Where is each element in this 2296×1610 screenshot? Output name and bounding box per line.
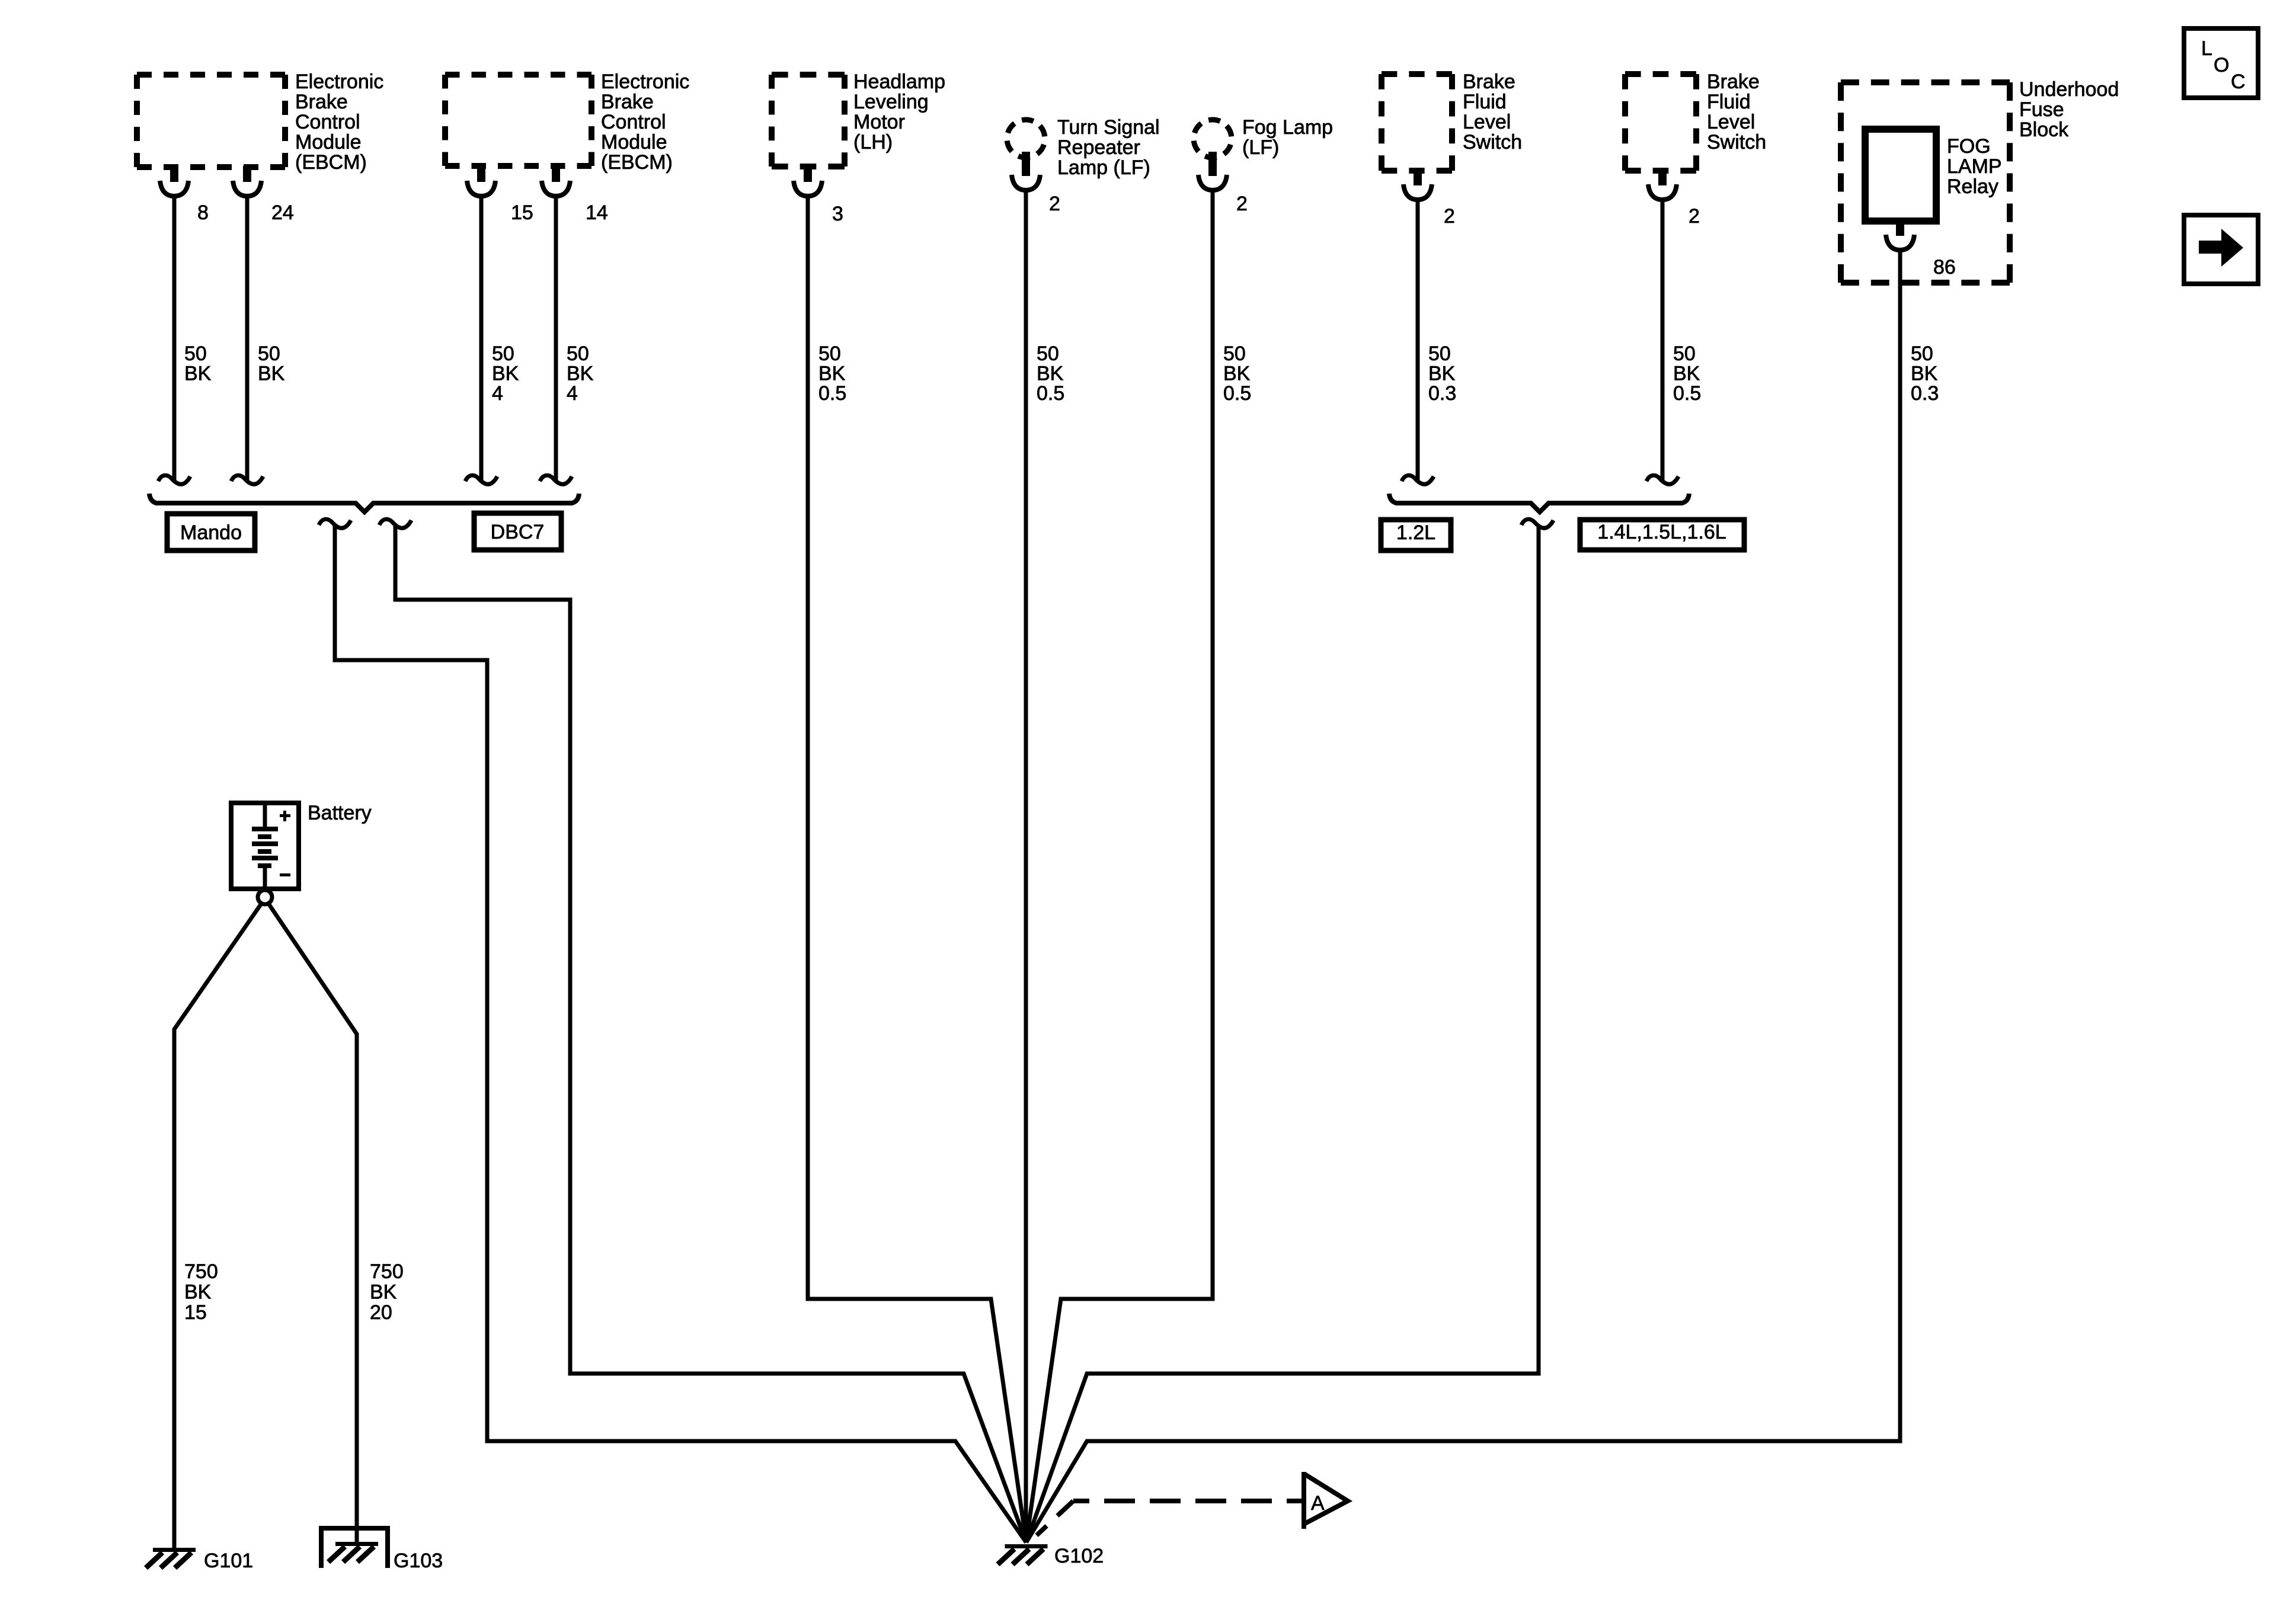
svg-text:Electronic: Electronic: [601, 71, 689, 93]
svg-text:BK: BK: [567, 363, 594, 385]
svg-text:G103: G103: [394, 1550, 443, 1572]
svg-text:Brake: Brake: [1707, 71, 1760, 93]
svg-text:Turn Signal: Turn Signal: [1057, 116, 1160, 139]
svg-text:LAMP: LAMP: [1947, 155, 2002, 178]
svg-text:50: 50: [1911, 343, 1933, 365]
svg-text:50: 50: [258, 343, 280, 365]
svg-text:Leveling: Leveling: [853, 91, 929, 113]
svg-text:Fluid: Fluid: [1707, 91, 1751, 113]
svg-text:2: 2: [1444, 205, 1455, 228]
svg-text:Brake: Brake: [1463, 71, 1515, 93]
svg-text:Lamp (LF): Lamp (LF): [1057, 156, 1150, 179]
svg-text:G101: G101: [204, 1550, 253, 1572]
svg-text:15: 15: [511, 201, 533, 224]
svg-text:1.4L,1.5L,1.6L: 1.4L,1.5L,1.6L: [1597, 521, 1726, 543]
svg-text:20: 20: [370, 1301, 392, 1324]
svg-text:0.3: 0.3: [1911, 382, 1939, 405]
svg-text:0.5: 0.5: [1223, 382, 1251, 405]
svg-text:(EBCM): (EBCM): [601, 151, 673, 174]
svg-text:24: 24: [271, 201, 294, 224]
svg-text:Brake: Brake: [295, 91, 348, 113]
svg-text:Control: Control: [295, 111, 360, 133]
svg-text:BK: BK: [184, 1281, 212, 1304]
svg-text:0.5: 0.5: [1673, 382, 1701, 405]
svg-text:Module: Module: [295, 131, 362, 153]
svg-text:Underhood: Underhood: [2019, 78, 2119, 101]
svg-text:C: C: [2231, 71, 2246, 93]
svg-text:Motor: Motor: [853, 111, 905, 133]
svg-text:0.3: 0.3: [1428, 382, 1456, 405]
svg-text:Switch: Switch: [1707, 131, 1766, 153]
svg-text:Fuse: Fuse: [2019, 98, 2064, 121]
svg-text:Switch: Switch: [1463, 131, 1522, 153]
svg-text:Fluid: Fluid: [1463, 91, 1507, 113]
svg-text:Level: Level: [1707, 111, 1755, 133]
svg-text:(LF): (LF): [1242, 136, 1279, 159]
svg-text:3: 3: [832, 203, 843, 225]
svg-text:50: 50: [1223, 343, 1246, 365]
svg-text:Level: Level: [1463, 111, 1511, 133]
svg-text:750: 750: [370, 1260, 404, 1283]
svg-text:(EBCM): (EBCM): [295, 151, 367, 174]
svg-text:750: 750: [184, 1260, 218, 1283]
svg-text:2: 2: [1236, 193, 1248, 215]
svg-text:Control: Control: [601, 111, 666, 133]
svg-text:BK: BK: [1911, 363, 1938, 385]
svg-text:BK: BK: [258, 363, 285, 385]
svg-text:FOG: FOG: [1947, 135, 1991, 158]
svg-text:DBC7: DBC7: [491, 521, 545, 543]
svg-text:BK: BK: [492, 363, 519, 385]
svg-text:2: 2: [1689, 205, 1700, 228]
svg-text:BK: BK: [184, 363, 212, 385]
svg-text:50: 50: [1673, 343, 1696, 365]
svg-text:50: 50: [1037, 343, 1059, 365]
svg-text:BK: BK: [1223, 363, 1251, 385]
svg-text:Repeater: Repeater: [1057, 136, 1140, 159]
svg-text:50: 50: [567, 343, 589, 365]
svg-text:Battery: Battery: [308, 802, 372, 824]
svg-text:1.2L: 1.2L: [1396, 521, 1435, 544]
svg-text:Electronic: Electronic: [295, 71, 383, 93]
svg-text:50: 50: [818, 343, 841, 365]
svg-text:50: 50: [1428, 343, 1451, 365]
svg-text:BK: BK: [370, 1281, 397, 1304]
svg-text:8: 8: [197, 201, 209, 224]
svg-text:50: 50: [184, 343, 207, 365]
svg-text:0.5: 0.5: [1037, 382, 1064, 405]
svg-text:BK: BK: [818, 363, 846, 385]
svg-text:BK: BK: [1428, 363, 1456, 385]
svg-text:86: 86: [1933, 256, 1956, 279]
svg-text:L: L: [2201, 37, 2212, 60]
svg-text:O: O: [2214, 54, 2229, 76]
svg-text:BK: BK: [1037, 363, 1064, 385]
svg-text:Block: Block: [2019, 119, 2069, 141]
svg-text:G102: G102: [1054, 1545, 1104, 1567]
svg-text:(LH): (LH): [853, 131, 893, 153]
svg-text:A: A: [1311, 1492, 1325, 1515]
svg-text:0.5: 0.5: [818, 382, 846, 405]
svg-text:4: 4: [492, 382, 503, 405]
svg-text:Mando: Mando: [180, 521, 242, 544]
svg-text:14: 14: [586, 201, 608, 224]
svg-text:4: 4: [567, 382, 578, 405]
svg-text:Fog Lamp: Fog Lamp: [1242, 116, 1333, 139]
svg-text:15: 15: [184, 1301, 207, 1324]
svg-text:Headlamp: Headlamp: [853, 71, 945, 93]
svg-text:Brake: Brake: [601, 91, 654, 113]
svg-text:BK: BK: [1673, 363, 1700, 385]
svg-text:Relay: Relay: [1947, 175, 1998, 198]
svg-text:50: 50: [492, 343, 514, 365]
svg-text:Module: Module: [601, 131, 667, 153]
svg-text:2: 2: [1049, 193, 1060, 215]
